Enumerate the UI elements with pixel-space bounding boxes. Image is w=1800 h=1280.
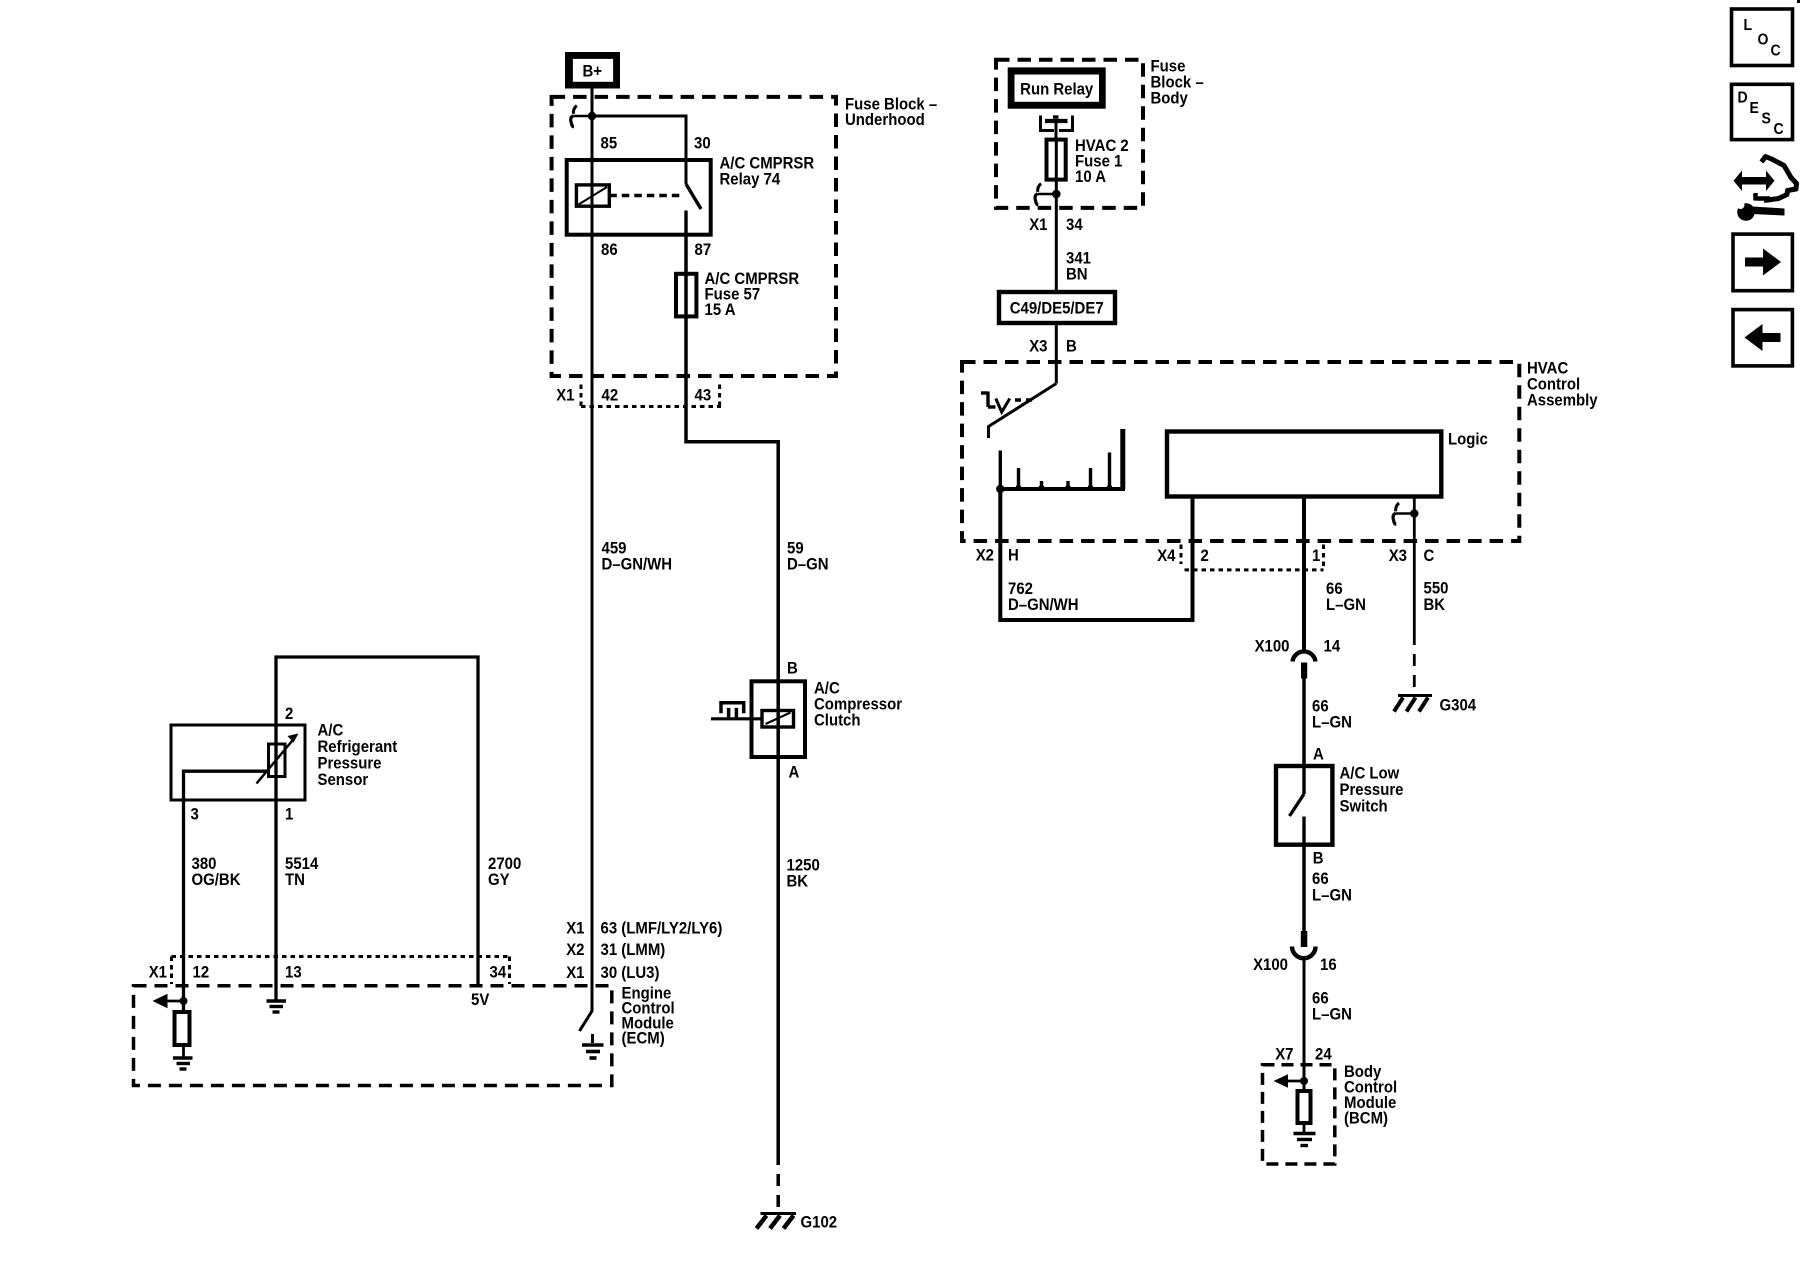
- svg-text:A/C Low: A/C Low: [1340, 765, 1400, 783]
- HVAC multi-position switch bus: [998, 429, 1126, 489]
- node at bus left: [996, 485, 1004, 493]
- svg-text:X3: X3: [1389, 547, 1407, 565]
- svg-text:C: C: [1424, 547, 1435, 565]
- run relay box: [1008, 67, 1106, 108]
- label fuse block underhood: [845, 96, 937, 130]
- logic module box: [1167, 431, 1488, 497]
- sensor variable resistor element: [269, 744, 286, 777]
- svg-text:B: B: [1313, 850, 1324, 868]
- svg-text:GY: GY: [488, 871, 510, 889]
- wire 5V loop pin2 to pin34: [276, 657, 478, 986]
- svg-text:13: 13: [285, 964, 302, 982]
- svg-text:X1: X1: [1029, 216, 1047, 234]
- BCM ground stub: [1303, 1123, 1306, 1132]
- svg-text:A/C: A/C: [318, 722, 344, 740]
- svg-text:X100: X100: [1253, 956, 1288, 974]
- wire 66 logic pin 1 down: [1302, 497, 1306, 653]
- svg-text:(ECM): (ECM): [622, 1030, 665, 1048]
- svg-text:L–GN: L–GN: [1312, 1006, 1352, 1024]
- ECM ground (pin 12 branch): [173, 1058, 193, 1069]
- svg-text:OG/BK: OG/BK: [192, 871, 241, 889]
- DESC icon: [1732, 84, 1793, 139]
- wire 66 label upper: [1326, 580, 1366, 614]
- svg-text:10 A: 10 A: [1075, 168, 1106, 186]
- svg-text:D–GN/WH: D–GN/WH: [602, 556, 673, 574]
- wire dashed drop to G102: [776, 1153, 780, 1210]
- clutch mechanical linkage: [711, 703, 762, 719]
- wire 550 dashed drop: [1413, 633, 1416, 694]
- svg-text:X1: X1: [566, 964, 584, 982]
- svg-text:X2: X2: [976, 547, 994, 565]
- svg-text:BN: BN: [1066, 266, 1088, 284]
- svg-text:Relay 74: Relay 74: [720, 171, 781, 189]
- svg-text:(BCM): (BCM): [1344, 1110, 1388, 1128]
- svg-text:24: 24: [1315, 1046, 1332, 1064]
- wire 66 to pressure switch: [1302, 679, 1306, 767]
- wire 380 pin3: [182, 800, 185, 1012]
- terminal hook at junction: [571, 106, 592, 127]
- svg-text:TN: TN: [285, 871, 305, 889]
- wire 59 label: [787, 540, 829, 574]
- svg-text:Clutch: Clutch: [814, 712, 861, 730]
- ECM pin rows X1/X2/X1 labels: [566, 920, 722, 983]
- run relay output terminal bracket: [1041, 116, 1073, 141]
- HVAC 2 fuse body: [1047, 140, 1066, 180]
- low pressure switch label: [1340, 765, 1404, 816]
- svg-text:X2: X2: [566, 941, 584, 959]
- connector X1 row 12/13/34 dotted: [172, 957, 511, 985]
- svg-text:2: 2: [285, 705, 293, 723]
- svg-text:85: 85: [601, 135, 618, 153]
- fuse block underhood dashed box: [552, 97, 836, 376]
- svg-text:3: 3: [191, 806, 199, 824]
- clutch label: [814, 680, 902, 730]
- svg-text:66: 66: [1312, 870, 1329, 888]
- svg-text:L–GN: L–GN: [1326, 596, 1366, 614]
- harness repair icon: [1734, 157, 1797, 221]
- ECM ground (switch) stub: [591, 1034, 594, 1043]
- svg-text:42: 42: [602, 387, 619, 405]
- svg-text:Switch: Switch: [1340, 798, 1388, 816]
- ECM ground (pin 13): [267, 1001, 287, 1012]
- svg-text:86: 86: [601, 241, 618, 259]
- wire 1250 label: [787, 857, 820, 891]
- relay K74 box: [567, 160, 711, 235]
- svg-text:G304: G304: [1440, 697, 1477, 715]
- HVAC switch blade: [989, 384, 1057, 439]
- connector X1 row 42/43 dotted: [581, 385, 721, 408]
- ECM signal arrow: [153, 994, 184, 1008]
- wire B+ trunk (circuit 459 / pin 42): [591, 86, 594, 987]
- node below fuse: [1052, 190, 1061, 199]
- terminal hook below fuse: [1035, 184, 1056, 205]
- svg-text:87: 87: [695, 241, 712, 259]
- clutch coil: [762, 711, 794, 728]
- svg-text:BK: BK: [787, 873, 809, 891]
- svg-text:34: 34: [490, 964, 507, 982]
- fuse block body dashed box: [996, 60, 1143, 208]
- ECM ground (switch): [582, 1045, 604, 1058]
- wire 2700 label: [488, 855, 521, 889]
- svg-text:G102: G102: [801, 1214, 838, 1232]
- wire 550 label: [1424, 580, 1449, 615]
- svg-text:5V: 5V: [471, 991, 490, 1009]
- ECM signal node: [180, 997, 188, 1005]
- BCM node: [1300, 1077, 1308, 1085]
- svg-text:1: 1: [1312, 547, 1320, 565]
- svg-text:Assembly: Assembly: [1527, 392, 1598, 410]
- svg-text:D–GN/WH: D–GN/WH: [1008, 596, 1079, 614]
- node ticks on bus: [1016, 485, 1113, 491]
- ECM pulldown resistor: [175, 1012, 190, 1045]
- svg-text:L–GN: L–GN: [1312, 714, 1352, 732]
- wire 459 label: [602, 540, 673, 574]
- wire 66 to BCM: [1303, 958, 1306, 1091]
- svg-text:Sensor: Sensor: [318, 771, 369, 789]
- HVAC 2 fuse label: [1075, 137, 1129, 186]
- svg-text:C49/DE5/DE7: C49/DE5/DE7: [1010, 300, 1104, 318]
- svg-text:16: 16: [1320, 956, 1337, 974]
- ground G304 chassis symbol: [1394, 696, 1432, 712]
- svg-text:L–GN: L–GN: [1312, 887, 1352, 905]
- wire 762 loop switch to logic pin 2: [1000, 489, 1192, 620]
- BCM ground: [1294, 1134, 1316, 1146]
- fuse block body label: [1151, 58, 1204, 108]
- fuse 57 label: [705, 270, 800, 319]
- terminal hook at pin C: [1393, 503, 1414, 524]
- svg-text:15 A: 15 A: [705, 301, 736, 319]
- svg-text:34: 34: [1066, 216, 1083, 234]
- svg-text:12: 12: [193, 964, 210, 982]
- A/C compressor clutch box: [752, 681, 806, 757]
- wire 66 label bottom: [1312, 990, 1352, 1024]
- battery feed B+ box: [565, 52, 620, 89]
- svg-text:X1: X1: [149, 964, 167, 982]
- svg-text:A: A: [789, 764, 800, 782]
- corner mark: [1797, 0, 1800, 3]
- svg-text:O: O: [1758, 31, 1769, 49]
- svg-text:S: S: [1762, 110, 1771, 128]
- svg-text:1: 1: [285, 806, 293, 824]
- connector X100/16 symbol: [1292, 931, 1316, 958]
- svg-text:Logic: Logic: [1448, 431, 1488, 449]
- svg-text:Pressure: Pressure: [1340, 781, 1404, 799]
- svg-text:L: L: [1744, 16, 1753, 34]
- wire 59 D-GN from relay 87 through fuse down to clutch and G102: [686, 235, 778, 1153]
- svg-text:Body: Body: [1151, 90, 1188, 108]
- relay contact stub: [684, 211, 687, 236]
- connector X4 dotted: [1181, 545, 1324, 571]
- svg-text:43: 43: [695, 387, 712, 405]
- sensor box: [171, 725, 305, 800]
- svg-text:2: 2: [1201, 547, 1209, 565]
- svg-text:X100: X100: [1255, 638, 1290, 656]
- svg-text:63 (LMF/LY2/LY6): 63 (LMF/LY2/LY6): [601, 920, 723, 938]
- wire 66 below switch: [1302, 845, 1306, 931]
- svg-text:C: C: [1771, 42, 1781, 60]
- svg-text:E: E: [1750, 99, 1759, 117]
- svg-text:X1: X1: [556, 387, 574, 405]
- svg-text:31 (LMM): 31 (LMM): [601, 941, 666, 959]
- svg-text:14: 14: [1324, 638, 1341, 656]
- HVAC switch fixed contact: [981, 392, 1033, 413]
- relay coil: [576, 185, 609, 206]
- node at pin C hook: [1410, 509, 1418, 517]
- sensor arrow: [257, 734, 299, 784]
- wire 66 label mid: [1312, 698, 1352, 732]
- wire branch to relay pin 30: [592, 116, 686, 184]
- relay switch blade: [686, 184, 701, 209]
- HVAC control assembly label: [1527, 360, 1598, 410]
- svg-text:D: D: [1738, 89, 1748, 107]
- svg-text:Refrigerant: Refrigerant: [318, 738, 398, 756]
- svg-text:B: B: [1066, 338, 1077, 356]
- sensor label: [318, 722, 398, 790]
- connector X100/14 symbol: [1293, 651, 1316, 678]
- sensor internal wire L: [184, 771, 269, 800]
- BCM dashed box: [1263, 1065, 1335, 1164]
- BCM pullup resistor: [1298, 1091, 1311, 1123]
- wire into HVAC assembly: [1055, 323, 1058, 384]
- wire 341 label: [1066, 250, 1091, 284]
- ground G102 chassis symbol: [757, 1214, 797, 1229]
- ECM dashed box: [134, 986, 612, 1086]
- node junction at B+ branch: [588, 112, 597, 121]
- svg-text:X1: X1: [566, 920, 584, 938]
- svg-text:BK: BK: [1424, 596, 1446, 614]
- relay actuation dashed link: [609, 194, 681, 197]
- svg-text:Underhood: Underhood: [845, 111, 925, 129]
- A/C low pressure switch box: [1276, 766, 1332, 845]
- wire 550 logic pin C: [1413, 497, 1416, 634]
- BCM label: [1344, 1063, 1397, 1128]
- svg-text:X4: X4: [1157, 547, 1175, 565]
- svg-text:Pressure: Pressure: [318, 755, 382, 773]
- svg-text:30 (LU3): 30 (LU3): [601, 964, 660, 982]
- wire 762 label: [1008, 580, 1079, 614]
- svg-text:X7: X7: [1275, 1046, 1293, 1064]
- wire 66 label lower: [1312, 870, 1352, 905]
- wire 5514 label: [285, 855, 318, 889]
- svg-text:A: A: [1313, 746, 1324, 764]
- LOC icon: [1732, 9, 1793, 66]
- relay label: [720, 155, 815, 189]
- BCM signal arrow: [1274, 1074, 1305, 1088]
- ECM internal switch blade: [580, 986, 593, 1031]
- svg-text:550: 550: [1424, 580, 1449, 598]
- low pressure switch contacts: [1290, 766, 1305, 845]
- wire 5514 pin1: [274, 800, 277, 1000]
- ECM label: [622, 985, 675, 1048]
- previous page arrow icon: [1733, 310, 1792, 366]
- svg-text:C: C: [1774, 120, 1784, 138]
- svg-text:B: B: [787, 660, 798, 678]
- connector C49/DE5/DE7 box: [999, 292, 1115, 323]
- fuse 57 body: [676, 274, 696, 317]
- svg-text:X3: X3: [1029, 338, 1047, 356]
- svg-text:Run Relay: Run Relay: [1020, 81, 1093, 99]
- next page arrow icon: [1733, 234, 1792, 291]
- svg-text:H: H: [1008, 547, 1019, 565]
- svg-text:30: 30: [694, 135, 711, 153]
- svg-text:D–GN: D–GN: [787, 556, 829, 574]
- svg-text:B+: B+: [583, 63, 603, 81]
- wire through HVAC2 fuse: [1055, 140, 1058, 292]
- wire 380 label: [192, 855, 241, 889]
- HVAC control assembly dashed box: [962, 362, 1519, 541]
- wire to ECM ground: [182, 1045, 185, 1057]
